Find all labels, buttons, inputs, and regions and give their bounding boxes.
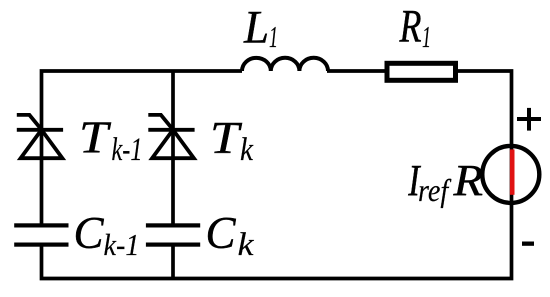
svg-text:C: C	[206, 207, 237, 258]
label Ck-1	[74, 207, 140, 262]
plus terminal	[517, 108, 541, 131]
svg-text:T: T	[210, 113, 242, 163]
minus terminal	[522, 242, 534, 246]
svg-text:k-1: k-1	[112, 132, 143, 168]
label Tk	[210, 113, 254, 168]
svg-text:R: R	[452, 157, 483, 206]
capacitor Ck	[146, 223, 200, 246]
inductor L1	[242, 58, 328, 71]
wire top-left: left vertical upper + top run to inductor	[42, 71, 243, 226]
label Tk-1	[79, 113, 143, 168]
svg-text:R: R	[399, 1, 422, 53]
svg-text:k: k	[238, 227, 255, 263]
svg-text:C: C	[74, 207, 105, 258]
label R1	[399, 1, 431, 55]
capacitor Ck-1	[14, 223, 68, 246]
red current marker inside source	[510, 149, 515, 194]
svg-text:L: L	[243, 2, 269, 54]
svg-text:1: 1	[422, 19, 431, 54]
label Ck	[206, 207, 255, 263]
svg-text:k-1: k-1	[104, 227, 140, 262]
svg-text:ref: ref	[418, 172, 452, 208]
svg-text:k: k	[240, 132, 254, 168]
wire inductor-to-resistor	[327, 69, 390, 73]
svg-text:T: T	[79, 113, 111, 163]
current source Iref circle	[482, 146, 539, 203]
label L1	[243, 2, 278, 55]
label Iref R	[407, 156, 483, 209]
wire branch node k lower	[171, 244, 175, 278]
wire left vertical lower + bottom run + right vertical	[42, 71, 512, 279]
thyristor Tk-1	[17, 115, 63, 158]
resistor R1	[387, 63, 456, 80]
wire branch node k upper	[171, 70, 175, 226]
thyristor Tk	[148, 115, 194, 158]
svg-text:1: 1	[269, 19, 278, 54]
